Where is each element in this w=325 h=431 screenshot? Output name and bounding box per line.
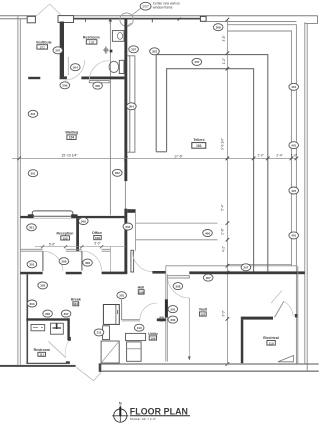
wall restroom2 bottom (26, 362, 70, 364)
dimension line vertical x=227 (226, 19, 228, 364)
svg-text:304: 304 (125, 225, 130, 229)
north arrow symbol (114, 409, 127, 422)
svg-text:1/07: 1/07 (142, 5, 149, 9)
counter reception transaction window (32, 211, 73, 216)
keynote oval near vestibule wall (71, 64, 81, 71)
svg-text:Vault: Vault (199, 308, 208, 312)
door reception swing arc (43, 251, 63, 271)
wall electrical west dark (241, 320, 244, 364)
keynote oval below vestibule wall (60, 82, 70, 89)
svg-text:301: 301 (170, 307, 175, 311)
wall vault west thin upper (166, 266, 168, 300)
door SE room leaf diagonal (271, 290, 282, 303)
svg-text:304: 304 (29, 302, 34, 306)
svg-text:Office: Office (92, 231, 102, 235)
dimension ticks on horizontal line (17, 157, 298, 161)
svg-text:9'-6 1/4": 9'-6 1/4" (220, 138, 224, 150)
svg-text:308: 308 (61, 260, 66, 264)
wall reception-office south thin segments (20, 249, 42, 251)
door hall swing arc (133, 252, 153, 272)
keynote oval right of new wall upper (129, 46, 139, 53)
wall restroom2 south stub (66, 361, 70, 364)
wall divider reception-office (dark) (76, 218, 79, 251)
door restroom2 leaf diagonal (49, 342, 66, 358)
door vault leaf (167, 276, 189, 278)
door electrical swing arc (284, 301, 293, 316)
keynote oval on new wall mid (127, 103, 137, 110)
svg-text:108: 108 (139, 290, 144, 294)
wall restroom2 chase west dark thin (26, 274, 28, 364)
svg-text:302: 302 (40, 284, 45, 288)
svg-text:401: 401 (291, 144, 296, 148)
detail circle on new wall (120, 13, 133, 26)
door frame line vestibule (67, 57, 69, 75)
keynote oval note (140, 2, 151, 10)
svg-text:301: 301 (29, 263, 34, 267)
line vertical east inner continuation (297, 266, 299, 364)
svg-text:Electrical: Electrical (263, 336, 279, 340)
svg-text:Reception: Reception (56, 231, 73, 235)
window jamb blocks (28, 214, 34, 218)
dimension ticks ramp (226, 221, 230, 241)
svg-text:307: 307 (55, 49, 60, 53)
keynote oval office door (83, 259, 93, 266)
svg-text:103: 103 (196, 144, 202, 148)
wall top-right second line (206, 21, 296, 23)
window mullion tick (151, 20, 153, 23)
svg-text:309: 309 (62, 84, 67, 88)
svg-text:109: 109 (150, 336, 155, 340)
keynote oval below wall (203, 274, 213, 281)
cabinet hall west upper (103, 305, 119, 325)
wall restroom2 north dark (26, 318, 69, 320)
svg-text:307: 307 (64, 312, 69, 316)
keynote oval vault door (173, 283, 183, 290)
svg-text:304: 304 (73, 66, 78, 70)
svg-text:1'-0": 1'-0" (291, 154, 297, 158)
svg-text:101: 101 (40, 45, 46, 49)
wall end cap at x=206 (200, 16, 206, 21)
fixture sink restroom1 (112, 31, 124, 42)
svg-text:110: 110 (269, 341, 274, 345)
wall utility north thin (122, 320, 140, 321)
door entry south V leaves (76, 367, 101, 380)
wall bottom band bottom line (99, 370, 319, 372)
dimension line horizontal y=158.4 (12, 157, 296, 159)
svg-text:307: 307 (206, 276, 211, 280)
wall break north dark segments (20, 272, 42, 275)
wall new main vertical (dark) upper part (124, 19, 127, 182)
keynote oval vault wall 2 (168, 316, 178, 323)
wall vestibule bottom stub (60, 76, 67, 79)
wall vestibule right (new, dark) (60, 22, 64, 80)
svg-text:301: 301 (119, 294, 124, 298)
counter utility lower (127, 342, 142, 361)
svg-text:102: 102 (89, 40, 95, 44)
dim tick at x=179 on wall (178, 18, 181, 21)
svg-text:406: 406 (205, 231, 210, 235)
wall bottom band top line (99, 363, 319, 365)
wall vault west dark section (165, 299, 168, 317)
dimension line offices y=246.7 (35, 246, 126, 248)
keynote oval near top wall end (213, 24, 223, 31)
wall stub at y=211 (127, 209, 135, 213)
svg-text:Waiting: Waiting (65, 131, 78, 135)
svg-text:104: 104 (69, 136, 75, 140)
door office leaf (81, 251, 83, 271)
keynote ovals on left wall (28, 110, 38, 117)
door entry vestibule pair leaves (36, 4, 62, 16)
svg-text:111: 111 (39, 353, 44, 357)
svg-text:Restroom: Restroom (83, 36, 100, 40)
wall hall south dark (152, 271, 166, 274)
window band top wall (dark sash line) (74, 18, 206, 20)
svg-text:310: 310 (137, 326, 142, 330)
wall spiral outer run (156, 55, 268, 272)
wall electrical north dark (241, 317, 273, 320)
wall top-right corner step (305, 16, 318, 24)
door utility swing arc (140, 303, 157, 320)
window mullion tick + arrow (109, 20, 112, 25)
svg-text:304: 304 (129, 105, 134, 109)
leader to note (132, 9, 141, 16)
door restroom swing arc (89, 61, 109, 81)
keynote oval utility (134, 324, 144, 331)
keynote oval on new wall lower (123, 223, 133, 230)
fixture toilet restroom1 (109, 61, 119, 72)
door restroom2 arc (65, 341, 69, 358)
slope triangle electrical (278, 356, 294, 362)
svg-text:401: 401 (291, 234, 296, 238)
keynote oval at cabinets (94, 329, 104, 336)
door vestibule swing arc (65, 60, 85, 80)
wall existing double inner run (227, 31, 291, 266)
svg-text:309: 309 (170, 318, 175, 322)
door jamb SE (295, 314, 298, 317)
svg-text:Vestibule: Vestibule (36, 40, 52, 44)
keynote oval big room near spiral (150, 48, 160, 55)
svg-text:401: 401 (291, 85, 296, 89)
wall bottom band left cap (99, 363, 102, 371)
wall restroom west thin (109, 22, 111, 216)
svg-text:3'-6": 3'-6" (222, 35, 226, 41)
keynote oval above hall wall (241, 264, 251, 271)
keynote oval at restroom door (93, 82, 103, 89)
svg-text:1'-2": 1'-2" (222, 58, 226, 64)
svg-text:5'-6": 5'-6" (49, 242, 55, 246)
svg-text:2'-0": 2'-0" (258, 154, 264, 158)
keynote oval left wall lower (27, 261, 37, 268)
dimension ticks on vertical line (226, 18, 230, 366)
svg-text:307: 307 (243, 266, 248, 270)
keynote oval restroom2 a (43, 310, 53, 317)
keynote oval strip mid (113, 169, 123, 176)
wall restroom2 east dark (67, 318, 69, 340)
svg-text:17'-6": 17'-6" (174, 154, 183, 158)
door office swing arc (82, 251, 102, 271)
wall opening thin jamb line (124, 181, 126, 208)
cabinet hall west middle (103, 326, 110, 340)
fixture grab cross (103, 47, 109, 54)
svg-text:306: 306 (81, 219, 86, 223)
svg-text:2'-4": 2'-4" (276, 154, 282, 158)
wall top-left stub bottom face (0, 18, 27, 20)
keynote oval chase (27, 300, 37, 307)
fixture sink restroom2 (31, 325, 45, 331)
svg-text:N: N (119, 402, 122, 406)
svg-text:FLOOR PLAN: FLOOR PLAN (130, 406, 188, 416)
svg-text:106: 106 (95, 236, 100, 240)
wall furring beside new wall (130, 56, 135, 152)
svg-text:15'-10 1/4": 15'-10 1/4" (61, 153, 78, 157)
keynote oval at window (79, 218, 89, 225)
keynote ovals on east double wall (289, 83, 299, 90)
ramp edge lines behind tellers (136, 223, 218, 240)
svg-text:107: 107 (200, 312, 205, 316)
window mullion tick left (85, 20, 87, 23)
svg-text:5'-4": 5'-4" (221, 204, 225, 210)
arc corner at new wall top (128, 23, 133, 27)
keynote oval on spiral top (192, 58, 202, 65)
wall right exterior double line (305, 22, 307, 371)
keynote oval 307 vestibule (53, 47, 63, 54)
svg-text:5'-0": 5'-0" (94, 242, 100, 246)
wall top exterior line (0, 15, 36, 17)
svg-text:Tellers: Tellers (193, 138, 204, 142)
wall utility north dark piece (157, 318, 166, 321)
wall existing bottom return (227, 263, 291, 265)
svg-text:308: 308 (175, 284, 180, 288)
svg-text:302: 302 (115, 171, 120, 175)
svg-text:Break: Break (71, 298, 81, 302)
cabinet hall west lower with diagonal (101, 341, 119, 363)
wall stub waiting left (28, 77, 40, 79)
svg-text:Utility: Utility (148, 332, 158, 336)
keynote oval reception door (59, 258, 69, 265)
wall vault-electrical north dark (189, 271, 304, 274)
svg-text:302: 302 (45, 312, 50, 316)
svg-text:105: 105 (63, 236, 68, 240)
door reception leaf (42, 251, 44, 271)
svg-text:301: 301 (29, 226, 34, 230)
svg-text:305: 305 (95, 84, 100, 88)
svg-text:301: 301 (30, 112, 35, 116)
keynote oval vault wall 1 (168, 306, 178, 313)
svg-text:311: 311 (97, 331, 102, 335)
ramp side line (135, 213, 137, 251)
svg-text:4'-2": 4'-2" (221, 246, 225, 252)
door hall leaf vertical (131, 250, 134, 272)
wall vault west thin lower (166, 318, 168, 362)
wall segment at vestibule head (58, 16, 74, 23)
wall left exterior double line (18, 16, 20, 365)
svg-text:SCALE: 1/4" = 1'-0": SCALE: 1/4" = 1'-0" (130, 417, 156, 421)
line vault door latch extension with arrow (188, 298, 190, 360)
door vault swing arc (168, 276, 190, 298)
wall restroom2 east jamb (68, 337, 71, 341)
svg-text:407: 407 (194, 60, 199, 64)
wall restroom south (dark) (81, 77, 124, 80)
tag box left of vault wall (160, 317, 163, 321)
svg-text:2'-8": 2'-8" (221, 228, 225, 234)
keynote oval on ramp (203, 230, 213, 237)
svg-text:303: 303 (152, 50, 157, 54)
floor drain dark square (110, 50, 113, 53)
fixture toilet stall restroom2 (51, 323, 64, 334)
svg-text:Hall: Hall (138, 285, 144, 289)
counter utility upper (126, 333, 146, 340)
wall new main vertical (dark) lower part (124, 209, 127, 273)
wall spiral inner run (167, 69, 254, 272)
door restroom leaf (89, 81, 109, 83)
wall spiral bottom connector (156, 151, 166, 153)
keynote oval left wall at reception (27, 224, 37, 231)
wall existing double (big room east enclosure) outer run (227, 25, 296, 364)
svg-text:window frame: window frame (153, 6, 173, 10)
wall break east thin (121, 299, 123, 320)
wall reception north (dark) with window gap (20, 216, 33, 218)
svg-text:3'-0": 3'-0" (221, 310, 225, 316)
svg-text:112: 112 (73, 302, 78, 306)
svg-text:Restroom: Restroom (34, 348, 50, 352)
svg-text:307: 307 (131, 48, 136, 52)
keynote oval restroom2 b (61, 310, 71, 317)
door electrical leaf diagonal (275, 301, 284, 317)
svg-text:407: 407 (291, 189, 296, 193)
svg-text:308: 308 (216, 26, 221, 30)
svg-text:301: 301 (30, 172, 35, 176)
keynote oval hall (117, 292, 127, 299)
keynote oval break (38, 282, 48, 289)
svg-text:308: 308 (85, 261, 90, 265)
wall bottom exterior left dark line (0, 365, 76, 367)
